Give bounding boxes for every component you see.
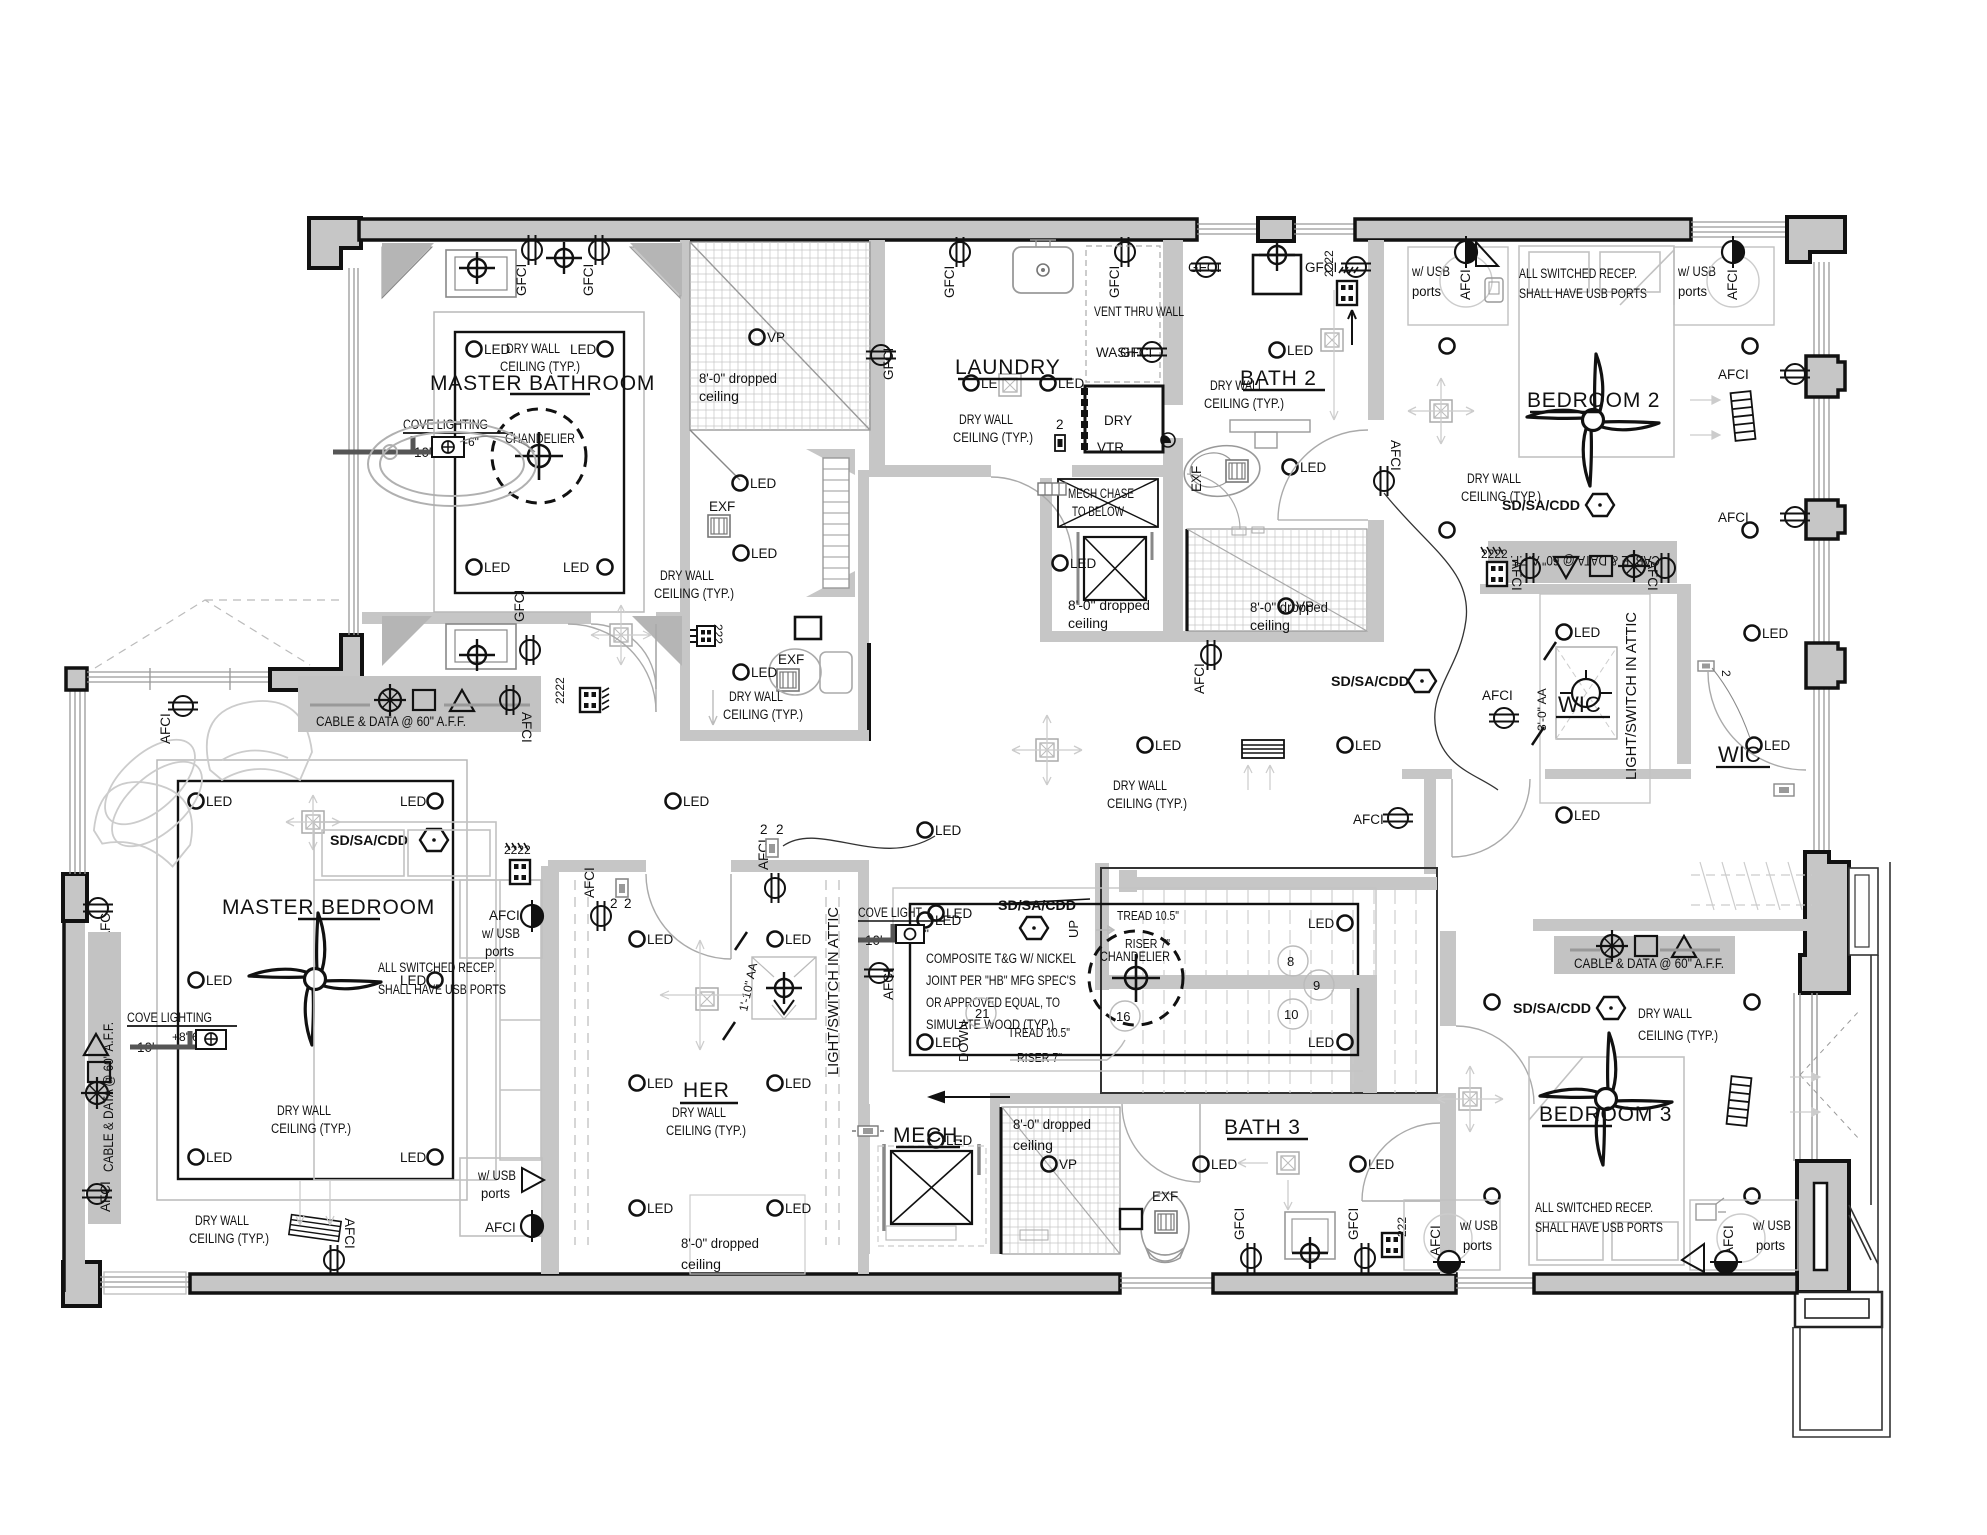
wire hall <box>783 836 935 848</box>
switch 2 <box>1055 417 1065 451</box>
wall: HER left wall <box>548 872 559 1274</box>
svg-text:MASTER BEDROOM: MASTER BEDROOM <box>222 896 435 919</box>
wall: laundry bottom wall <box>869 465 991 477</box>
AC unit <box>1084 537 1146 600</box>
LED right <box>1745 626 1789 642</box>
AFCI near top <box>1374 440 1403 496</box>
switch 2 2 top <box>610 879 632 911</box>
svg-text:LED: LED <box>570 342 597 357</box>
window: top gap 2 <box>1294 224 1355 234</box>
svg-text:BEDROOM 2: BEDROOM 2 <box>1527 389 1660 412</box>
wall box <box>1120 1209 1142 1229</box>
quad receptacle near top <box>504 843 531 884</box>
svg-text:GFCI: GFCI <box>1120 345 1152 360</box>
svg-text:MECH CHASE: MECH CHASE <box>1068 486 1134 501</box>
svg-text:GFCI: GFCI <box>1232 1208 1247 1240</box>
svg-text:DRY: DRY <box>1104 413 1132 428</box>
svg-text:TREAD 10.5": TREAD 10.5" <box>1008 1025 1070 1040</box>
svg-text:EXF: EXF <box>709 499 735 514</box>
wall: mech chase walls <box>1040 478 1052 631</box>
svg-text:DRY WALL: DRY WALL <box>959 412 1013 427</box>
wall: WIC attic top band wall <box>1480 584 1691 594</box>
svg-text:LED: LED <box>1155 738 1182 753</box>
LED dots plain <box>1440 339 1455 354</box>
quad left of band <box>1481 547 1508 586</box>
LED light <box>467 342 511 358</box>
LED light <box>929 1133 973 1149</box>
cable&data band bedroom2 (inverted) <box>1488 541 1677 583</box>
WIC attic room box <box>1540 594 1650 803</box>
svg-text:AFCI: AFCI <box>1509 560 1524 591</box>
svg-text:AFCI: AFCI <box>1428 1225 1443 1256</box>
LED pair <box>1194 1157 1238 1173</box>
wall: WIC2 bottom wall <box>1533 919 1820 931</box>
svg-text:2222: 2222 <box>553 677 567 704</box>
wall: top mid block <box>1258 218 1294 241</box>
svg-text:w/ USB: w/ USB <box>1677 264 1716 279</box>
wall: right pilaster 3 <box>1806 643 1845 688</box>
svg-text:w/ USB: w/ USB <box>477 1168 516 1183</box>
svg-text:ceiling: ceiling <box>1068 616 1108 631</box>
door arc bath3 entry <box>1122 1104 1200 1182</box>
arrow down gray <box>709 690 717 725</box>
wall: bath3 right wall <box>1440 1104 1456 1274</box>
door arc: master bath entry <box>591 624 656 689</box>
svg-text:LED: LED <box>751 546 778 561</box>
wall: bay bottom box <box>1795 1292 1882 1327</box>
door arc: master suite entry <box>568 624 656 712</box>
svg-text:LAUNDRY: LAUNDRY <box>955 356 1061 379</box>
sink <box>1013 247 1073 293</box>
svg-text:16: 16 <box>1116 1009 1130 1024</box>
svg-text:GFCI: GFCI <box>1107 266 1122 298</box>
wall: top-right corner block <box>1787 217 1845 262</box>
svg-text:LIGHT/SWITCH IN ATTIC: LIGHT/SWITCH IN ATTIC <box>826 907 842 1075</box>
svg-text:EXF: EXF <box>1189 466 1204 492</box>
AFCI bottom <box>324 1218 357 1275</box>
svg-text:DRY WALL: DRY WALL <box>277 1103 331 1118</box>
plain LED dots <box>1485 995 1500 1010</box>
svg-text:CABLE & DATA @ 60" A.F.F.: CABLE & DATA @ 60" A.F.F. <box>1574 956 1724 971</box>
circled stair numbers <box>966 946 1334 1031</box>
svg-text:AFCI: AFCI <box>881 969 896 1000</box>
door arc: laundry <box>991 477 1072 558</box>
gray texts tread/riser <box>956 908 1179 1065</box>
crossed circle <box>81 1077 113 1109</box>
wall: shower/WC column left wall <box>680 240 690 740</box>
svg-text:WIC: WIC <box>1558 692 1601 717</box>
svg-text:ports: ports <box>1756 1238 1785 1253</box>
LED pair hall <box>666 794 710 810</box>
LED light <box>1270 343 1314 359</box>
svg-text:LED: LED <box>1308 916 1335 931</box>
svg-text:LED: LED <box>1764 738 1791 753</box>
GFCI outlet <box>514 235 542 296</box>
svg-text:VTR: VTR <box>1097 440 1124 455</box>
cable&data band bedroom3 <box>1554 936 1735 974</box>
svg-text:SD/SA/CDD: SD/SA/CDD <box>1513 1001 1591 1016</box>
svg-text:BATH 3: BATH 3 <box>1224 1116 1301 1139</box>
window: master bathroom left wall <box>349 268 358 635</box>
wall: mech left wall <box>860 1104 870 1254</box>
LED light <box>1053 556 1097 572</box>
wall: HER right wall <box>858 872 869 1274</box>
svg-text:ports: ports <box>1412 284 1441 299</box>
svg-text:MECH.: MECH. <box>893 1124 965 1147</box>
up arrow gray <box>1096 926 1114 934</box>
recessed fixture <box>999 374 1021 396</box>
svg-text:ALL SWITCHED RECEP.: ALL SWITCHED RECEP. <box>1535 1200 1653 1215</box>
svg-text:w/ USB: w/ USB <box>481 926 520 941</box>
svg-text:222: 222 <box>1395 1217 1409 1237</box>
LED top <box>1557 625 1601 641</box>
svg-text:9: 9 <box>1313 978 1320 993</box>
LED light <box>570 342 613 358</box>
svg-text:w/ USB: w/ USB <box>1459 1218 1498 1233</box>
wall: top main segment <box>359 219 1197 240</box>
EXF fan <box>777 652 804 691</box>
svg-text:3'-0" AA: 3'-0" AA <box>1535 688 1549 731</box>
wall: upper-left L corner <box>270 635 362 690</box>
svg-text:MASTER BATHROOM: MASTER BATHROOM <box>430 372 655 395</box>
window: bay below outline <box>1793 862 1890 1437</box>
phone small <box>1485 278 1503 302</box>
vanity bath3 <box>1285 1212 1335 1269</box>
special ceiling light with V <box>752 957 816 1019</box>
bed bedroom3 <box>1529 1057 1684 1265</box>
SD/SA/CDD <box>1331 670 1436 692</box>
svg-text:10: 10 <box>1284 1007 1298 1022</box>
svg-text:ALL SWITCHED RECEP.: ALL SWITCHED RECEP. <box>1519 266 1637 281</box>
svg-text:AFCI: AFCI <box>485 1220 516 1235</box>
svg-text:8'-0" dropped: 8'-0" dropped <box>681 1236 759 1251</box>
svg-text:CEILING (TYP.): CEILING (TYP.) <box>666 1123 746 1138</box>
ceiling fan bedroom3 <box>1540 1033 1672 1165</box>
svg-text:LED: LED <box>683 794 710 809</box>
svg-text:21: 21 <box>975 1006 989 1021</box>
wall: top-left corner block <box>309 218 361 268</box>
chandelier C2 <box>1089 931 1183 1025</box>
svg-text:LED: LED <box>1368 1157 1395 1172</box>
recessed fixture <box>696 988 718 1010</box>
svg-text:2: 2 <box>1719 670 1733 677</box>
ceiling: drywall box <box>178 781 453 1179</box>
closet door wedge left <box>382 247 432 298</box>
washer dashed <box>1086 246 1160 382</box>
WIC ceiling light small <box>1774 784 1794 796</box>
switch 2 small <box>1698 661 1733 677</box>
LED lights <box>1138 738 1182 754</box>
door arc bedroom3 <box>1456 1026 1534 1104</box>
svg-text:LIGHT/SWITCH IN ATTIC: LIGHT/SWITCH IN ATTIC <box>1624 612 1640 780</box>
svg-text:COVE LIGHTING: COVE LIGHTING <box>127 1010 212 1025</box>
WC room interior <box>690 617 852 725</box>
svg-text:TREAD 10.5": TREAD 10.5" <box>1117 908 1179 923</box>
svg-text:AFCI: AFCI <box>1388 440 1403 471</box>
ceiling: outer soffit rect <box>434 312 644 612</box>
GFCI pair <box>1232 1208 1261 1273</box>
door arc hall/WIC2 lobby <box>1452 779 1530 857</box>
svg-text:8: 8 <box>1287 954 1294 969</box>
shower bath3 tiled <box>1001 1107 1120 1254</box>
dashed ceiling box <box>1556 647 1617 739</box>
svg-text:RISER 7": RISER 7" <box>1125 936 1170 951</box>
svg-text:TO BELOW: TO BELOW <box>1072 504 1124 519</box>
wire: cove to chandelier <box>460 436 535 452</box>
GFCI outlet bottom <box>512 590 540 665</box>
svg-text:LED: LED <box>647 932 674 947</box>
svg-text:DRY WALL: DRY WALL <box>506 341 560 356</box>
GFCI outlet left <box>866 345 896 380</box>
svg-text:AFCI: AFCI <box>582 867 597 898</box>
AFCI w/usb pair bottom <box>1433 1251 1465 1273</box>
armchair 1 <box>207 701 312 780</box>
recessed + arrows <box>1012 715 1082 785</box>
window: right bay box upper <box>1849 868 1878 955</box>
svg-text:LED: LED <box>1300 460 1327 475</box>
quad receptacle <box>1322 250 1358 305</box>
wall: bath3 top wall <box>990 1093 1456 1104</box>
svg-text:AFCI: AFCI <box>1718 367 1749 382</box>
svg-text:AFCI: AFCI <box>342 1218 357 1249</box>
svg-text:SHALL HAVE USB PORTS: SHALL HAVE USB PORTS <box>378 982 506 997</box>
svg-text:2: 2 <box>760 822 768 837</box>
svg-text:LED: LED <box>785 932 812 947</box>
svg-text:GFCI: GFCI <box>512 590 527 622</box>
svg-text:8'-0" dropped: 8'-0" dropped <box>1013 1117 1091 1132</box>
small reg <box>1038 483 1066 495</box>
LED lights corners <box>189 794 233 810</box>
quad receptacle 2222 <box>553 677 609 712</box>
closet dashed rods <box>575 880 839 1274</box>
svg-text:GFCI: GFCI <box>942 266 957 298</box>
svg-text:LED: LED <box>206 1150 233 1165</box>
AFCI on band <box>500 685 534 743</box>
svg-text:LED: LED <box>785 1201 812 1216</box>
svg-text:LED: LED <box>1308 1035 1335 1050</box>
svg-text:GFCI: GFCI <box>581 264 596 296</box>
window: top gap 3 <box>1691 222 1787 237</box>
wall: right pilaster 1 <box>1806 356 1845 397</box>
svg-text:AFCI: AFCI <box>1482 688 1513 703</box>
svg-text:LED: LED <box>400 794 427 809</box>
svg-text:EXF: EXF <box>1152 1189 1178 1204</box>
wall: bottom main segment <box>190 1274 1120 1293</box>
w/USB left <box>1408 236 1508 325</box>
AFCI symbols top <box>582 867 611 931</box>
chandelier C1 <box>492 409 586 503</box>
switch 2 2 hall <box>760 822 784 857</box>
bed bedroom2 <box>1519 246 1674 457</box>
w/USB right <box>1690 1198 1798 1270</box>
AFCI on band <box>82 1181 113 1212</box>
ceiling: drywall box <box>455 332 624 593</box>
svg-text:AFCI: AFCI <box>158 713 173 744</box>
wall: stairs left L <box>1095 863 1109 990</box>
gray niche right <box>630 243 682 297</box>
svg-text:ceiling: ceiling <box>681 1257 721 1272</box>
wall: bath2/bedroom2 divider <box>1368 240 1384 420</box>
chase X box <box>1058 479 1158 527</box>
svg-text:AFCI: AFCI <box>1645 560 1660 591</box>
svg-text:UP: UP <box>1066 920 1081 938</box>
AFCI right wall x2 <box>1718 364 1810 384</box>
recessed + arrows <box>1408 378 1474 444</box>
svg-text:CHANDELIER: CHANDELIER <box>1100 949 1170 964</box>
svg-text:2: 2 <box>624 896 632 911</box>
svg-text:CEILING (TYP.): CEILING (TYP.) <box>271 1121 351 1136</box>
svg-text:VP: VP <box>1059 1157 1077 1172</box>
supply register tilted <box>289 1215 341 1242</box>
window: top gap 1 <box>1197 224 1258 234</box>
AFCI left of stairs <box>864 963 896 1000</box>
wall: HER top wall <box>548 860 646 872</box>
svg-text:LED: LED <box>1287 343 1314 358</box>
door arc HER <box>646 874 731 959</box>
door arc bath2 shower door <box>1187 474 1240 529</box>
svg-text:LED: LED <box>946 906 973 921</box>
svg-text:GFCI: GFCI <box>881 348 896 380</box>
svg-text:LED: LED <box>206 973 233 988</box>
EXF fan <box>708 499 735 537</box>
w/USB right <box>1674 236 1774 325</box>
SD/SA/CDD <box>330 829 448 851</box>
linen closet column <box>806 449 855 597</box>
svg-text:LED: LED <box>750 476 777 491</box>
wall: upper-left corner block small <box>66 668 87 690</box>
svg-text:COMPOSITE T&G W/ NICKEL: COMPOSITE T&G W/ NICKEL <box>926 951 1076 966</box>
nightstand top <box>460 880 542 958</box>
svg-text:ceiling: ceiling <box>1250 618 1290 633</box>
wall: master bedroom / HER divider <box>541 866 556 1274</box>
recessed fixture hallway <box>591 605 651 665</box>
svg-text:LED: LED <box>935 823 962 838</box>
wall: laundry/bath2 divider <box>1163 240 1183 405</box>
svg-text:AFCI: AFCI <box>98 1181 113 1212</box>
svg-text:DRY WALL: DRY WALL <box>195 1213 249 1228</box>
ceiling: outer soffit rect <box>157 760 467 1200</box>
window: left upper glazing <box>70 690 85 874</box>
wall: bath2 bottom wall <box>1040 631 1368 642</box>
cable & data band top <box>298 676 541 732</box>
wall: bedroom3 left upper <box>1440 931 1456 1026</box>
window: bay outer frame right <box>1849 955 1878 1292</box>
wall: top right long segment <box>1355 219 1691 240</box>
svg-text:LED: LED <box>1574 808 1601 823</box>
wall: WIC attic right wall <box>1677 594 1691 764</box>
svg-text:CEILING (TYP.): CEILING (TYP.) <box>1204 396 1284 411</box>
svg-text:2222: 2222 <box>1322 250 1336 277</box>
wire from WC switches <box>723 640 790 700</box>
svg-text:CEILING (TYP.): CEILING (TYP.) <box>723 707 803 722</box>
svg-text:WIC: WIC <box>1718 742 1761 767</box>
stair treads dashed <box>1143 890 1416 1093</box>
svg-text:AFCI: AFCI <box>1725 269 1740 300</box>
LED light <box>467 560 511 576</box>
EXF fan <box>1152 1189 1178 1233</box>
svg-text:GFCI: GFCI <box>1346 1208 1361 1240</box>
wall: right bay upper block <box>1800 852 1849 993</box>
wall: right bay lower block <box>1797 1161 1849 1292</box>
GFCI outlet <box>1107 237 1135 298</box>
svg-text:LED: LED <box>1355 738 1382 753</box>
landing rail gray <box>1109 975 1377 988</box>
wire bedroom2 <box>1384 493 1498 790</box>
svg-text:BATH 2: BATH 2 <box>1240 367 1317 390</box>
svg-text:AFCI: AFCI <box>1718 510 1749 525</box>
svg-text:SD/SA/CDD: SD/SA/CDD <box>1331 674 1409 689</box>
AFCI <box>1192 640 1221 694</box>
AFCI outlet hall right <box>1353 808 1413 828</box>
svg-text:SHALL HAVE USB PORTS: SHALL HAVE USB PORTS <box>1519 286 1647 301</box>
AFCI upper left <box>158 696 198 744</box>
window: right wall glazing <box>1814 262 1829 856</box>
wall: shower/WC column right wall <box>869 240 885 470</box>
recessed + arrows <box>1238 1152 1299 1210</box>
svg-text:OR APPROVED EQUAL, TO: OR APPROVED EQUAL, TO <box>926 995 1060 1010</box>
svg-text:222: 222 <box>711 624 725 644</box>
towel bar <box>1230 420 1310 432</box>
arrow up <box>1348 310 1356 345</box>
door wedge bottom right <box>632 616 682 666</box>
nightstand bottom <box>460 1158 542 1236</box>
svg-text:ports: ports <box>1463 1238 1492 1253</box>
shower bath2: tiled <box>1187 527 1367 631</box>
LED lights <box>630 932 674 948</box>
svg-text:DRY WALL: DRY WALL <box>660 568 714 583</box>
LED light <box>1041 376 1085 392</box>
SD/SA/CDD <box>1513 997 1625 1019</box>
small device left <box>852 1126 884 1136</box>
down arrow big <box>1010 1040 1125 1060</box>
LED light <box>1283 460 1327 476</box>
svg-text:ports: ports <box>481 1186 510 1201</box>
svg-text:2: 2 <box>1056 417 1064 432</box>
LED light <box>733 476 777 492</box>
wall: WC bottom wall <box>680 730 869 741</box>
svg-text:LED: LED <box>1762 626 1789 641</box>
window: bottom-left sill <box>100 1272 190 1294</box>
vanity bottom <box>446 624 516 669</box>
svg-text:CHANDELIER: CHANDELIER <box>505 431 575 446</box>
vanity <box>1253 255 1301 294</box>
svg-text:AFCI: AFCI <box>1353 812 1384 827</box>
toilet bath3 <box>1141 1193 1189 1263</box>
svg-text:w/ USB: w/ USB <box>1752 1218 1791 1233</box>
VP light <box>1279 599 1315 615</box>
shower: tiled walk-in <box>690 242 870 480</box>
dashed service box <box>878 1146 986 1246</box>
svg-text:DRY WALL: DRY WALL <box>1638 1006 1692 1021</box>
square <box>88 1062 110 1082</box>
GFCI outlet <box>942 237 970 298</box>
switch cluster 222 <box>690 624 725 646</box>
svg-text:CEILING (TYP.): CEILING (TYP.) <box>654 586 734 601</box>
wall: masterbath/hall bottom wall <box>362 612 591 624</box>
svg-text:CEILING (TYP.): CEILING (TYP.) <box>1107 796 1187 811</box>
wall: bottom segment 2 <box>1213 1274 1456 1293</box>
GFCI outlet <box>581 235 609 296</box>
quad right <box>1382 1217 1409 1257</box>
tub <box>368 422 536 506</box>
window: bottom gap 2 <box>1456 1278 1534 1288</box>
vanity top-left <box>446 250 516 297</box>
svg-text:RISER 7": RISER 7" <box>1017 1050 1062 1065</box>
GFCI outlet <box>1305 257 1371 277</box>
register vertical <box>1731 391 1756 441</box>
svg-text:LED: LED <box>1070 556 1097 571</box>
supply register <box>1242 740 1284 758</box>
